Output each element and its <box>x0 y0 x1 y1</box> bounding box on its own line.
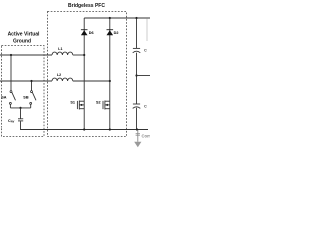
node A (L1 / D6 / S1) <box>83 54 85 56</box>
node S1 source on rail <box>83 128 85 130</box>
wire SA-SB common <box>10 107 30 109</box>
inductor L1 <box>52 52 73 55</box>
transistor S1 <box>76 101 78 109</box>
wire cap midpoint to edge <box>137 75 151 77</box>
wire load (right edge, faint) <box>146 18 148 41</box>
wire common to CAV <box>20 108 22 119</box>
node B (L2 / D2 / S2) <box>109 80 111 82</box>
svg-text:Active Virtual: Active Virtual <box>8 31 40 37</box>
capacitor C1 <box>133 47 140 49</box>
ground arrow (grey output common) <box>137 130 139 142</box>
wire AC line 1 (to L1) <box>0 54 52 56</box>
node common junction <box>19 107 21 109</box>
node cap branch bottom <box>136 128 138 130</box>
diode D2 <box>107 29 114 31</box>
wire AC line 2 (to L2) <box>0 80 52 82</box>
switch SB <box>31 91 33 93</box>
dashed box Bridgeless PFC <box>48 12 127 137</box>
diode D6 <box>81 29 88 31</box>
wire vertical line1 to switch SA <box>10 55 12 91</box>
wire L2 to node B <box>73 80 110 82</box>
svg-text:Bridgeless PFC: Bridgeless PFC <box>68 3 105 9</box>
wire CAV to bottom rail <box>21 121 149 129</box>
svg-text:L1: L1 <box>58 47 62 51</box>
wire branch A (D6/S1) <box>83 18 85 130</box>
svg-text:SB: SB <box>23 96 29 100</box>
wire L1 to node A <box>73 54 84 56</box>
node branch B top <box>109 17 111 19</box>
wire branch B (D2/S2) <box>109 18 111 130</box>
transistor S2 <box>102 101 104 109</box>
wire output capacitor branch <box>136 18 138 48</box>
svg-text:Com: Com <box>142 133 151 138</box>
wire top rail <box>84 17 150 19</box>
node cap branch top <box>135 17 137 19</box>
switch SA <box>10 91 12 93</box>
capacitor C2 <box>133 103 140 105</box>
node line2/SB junction <box>30 80 32 82</box>
svg-text:CAV: CAV <box>8 119 14 124</box>
inductor L2 <box>52 78 73 81</box>
svg-text:SA: SA <box>1 96 7 100</box>
svg-text:Ground: Ground <box>13 39 31 45</box>
svg-text:S1: S1 <box>70 101 75 105</box>
svg-text:S2: S2 <box>96 101 101 105</box>
svg-text:L2: L2 <box>57 73 61 77</box>
dashed box Active Virtual Ground <box>2 46 45 137</box>
svg-text:C: C <box>144 104 147 108</box>
svg-text:D6: D6 <box>89 31 94 35</box>
node S2 source on rail <box>109 128 111 130</box>
wire SA bottom stub <box>9 104 11 108</box>
svg-text:C: C <box>144 49 147 53</box>
node line1/SA junction <box>10 54 12 56</box>
wire stub line2 to switch SB <box>31 81 33 91</box>
svg-text:D2: D2 <box>114 31 119 35</box>
node cap midpoint <box>135 74 137 76</box>
wire SB bottom stub <box>30 104 32 108</box>
capacitor CAV <box>18 118 23 120</box>
